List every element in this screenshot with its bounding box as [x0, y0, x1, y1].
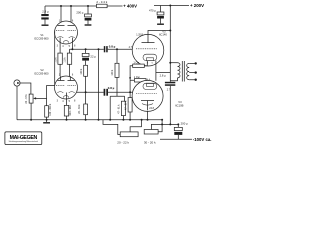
wire V3 cathode lead	[146, 61, 148, 66]
svg-text:2,8 µ: 2,8 µ	[160, 73, 166, 77]
wire pot bottom to bus	[30, 103, 32, 120]
svg-text:620 - 680: 620 - 680	[69, 105, 72, 116]
wire V1 out y49	[70, 48, 133, 50]
wire R5 to bus	[66, 116, 68, 120]
svg-text:Schaltungssammlung Röhrentechn: Schaltungssammlung Röhrentechnik	[9, 140, 38, 143]
capacitor C8 200u	[174, 122, 188, 140]
svg-text:V1: V1	[40, 33, 44, 37]
resistor R9 100k	[110, 49, 124, 120]
tube V1 ECC83	[55, 19, 78, 47]
svg-text:1 Ом: 1 Ом	[134, 76, 140, 79]
svg-text:0.8 µ: 0.8 µ	[108, 86, 115, 90]
resistor R5 620-680	[64, 105, 72, 116]
capacitor C3 470u	[149, 6, 164, 24]
wire HT drop	[169, 6, 171, 82]
resistor R11 47-61k	[117, 101, 125, 120]
potentiometer P1 20-47k	[25, 93, 36, 103]
tube V2 ECC83	[55, 73, 78, 103]
svg-text:2 - 3.4 k: 2 - 3.4 k	[96, 0, 107, 4]
capacitor C6 0.8u	[104, 86, 115, 96]
logo box	[5, 132, 42, 145]
wire R6 to bus	[46, 117, 48, 120]
resistor R1 2-3.4k	[96, 0, 107, 8]
wire V3 anode to rail	[148, 30, 171, 35]
ground G2	[85, 24, 92, 25]
capacitor C1 2.8u	[41, 6, 49, 24]
svg-text:-100V ca.: -100V ca.	[193, 137, 212, 142]
ground G4	[43, 120, 50, 124]
svg-text:100 k: 100 k	[80, 68, 83, 75]
connector J1 input	[14, 80, 20, 86]
svg-text:0.8 µ: 0.8 µ	[109, 45, 116, 49]
svg-text:V2: V2	[40, 68, 44, 72]
wire pot wiper to grid node	[36, 86, 55, 106]
svg-text:470 µ: 470 µ	[149, 9, 156, 13]
wire R7 down	[85, 76, 87, 92]
svg-text:+ 400V: + 400V	[123, 4, 137, 9]
wire R8	[85, 92, 87, 120]
svg-text:20 - 22 k: 20 - 22 k	[117, 141, 129, 145]
resistor R12 47-97k	[125, 92, 133, 120]
svg-text:MAI-GEGEN: MAI-GEGEN	[10, 135, 38, 141]
wire V4 anode to bus	[147, 111, 149, 120]
svg-text:24.8: 24.8	[149, 107, 154, 110]
ground G3	[157, 24, 164, 25]
tube V3 output upper	[129, 33, 164, 66]
resistor R14 1 Ohm	[130, 76, 148, 92]
wire R2-R3 to V2	[60, 49, 69, 76]
wire V2 cathode lead	[66, 93, 68, 106]
svg-text:20 - 33 k: 20 - 33 k	[78, 104, 81, 114]
svg-text:1,5 k: 1,5 k	[64, 57, 67, 63]
ground G1	[42, 25, 49, 26]
wire V2 out y92.2	[77, 91, 133, 93]
resistor R16 30-20k	[144, 120, 162, 145]
svg-text:22 µ: 22 µ	[90, 54, 96, 58]
wire J1 to pot	[20, 83, 31, 94]
svg-text:ECC83-800: ECC83-800	[34, 37, 49, 41]
svg-text:6C10B: 6C10B	[175, 104, 183, 108]
svg-text:200 µ: 200 µ	[76, 10, 83, 14]
svg-text:+ 200V: + 200V	[190, 3, 204, 8]
svg-text:V3: V3	[178, 100, 182, 104]
resistor R3	[64, 53, 72, 64]
svg-text:1.35 B: 1.35 B	[136, 33, 143, 36]
wire top +400V rail	[45, 5, 123, 7]
svg-text:47 - 97 k: 47 - 97 k	[125, 100, 128, 110]
resistor R2	[54, 53, 62, 64]
wire V3 heater pin to V4	[156, 61, 170, 81]
svg-text:30 - 20 k: 30 - 20 k	[144, 141, 156, 145]
svg-text:47 - 61 k: 47 - 61 k	[117, 104, 120, 114]
resistor R15 20-22k	[117, 120, 141, 145]
transformer T1	[170, 61, 197, 82]
tube V4 output lower	[132, 79, 163, 112]
wire V1 cathode leads	[60, 38, 72, 54]
capacitor C4 0.8u	[104, 45, 116, 53]
svg-text:20 - 47 k: 20 - 47 k	[25, 93, 28, 103]
resistor R8 20-33k	[78, 104, 88, 115]
svg-text:ECC83-800: ECC83-800	[34, 72, 49, 76]
svg-text:1 Ом: 1 Ом	[133, 61, 139, 64]
capacitor C5 22u	[82, 49, 96, 65]
capacitor C2 200u	[76, 6, 91, 24]
wire seg A	[103, 120, 120, 135]
wire seg B	[161, 123, 179, 125]
resistor R7	[80, 65, 88, 76]
svg-text:100 k: 100 k	[111, 69, 114, 76]
resistor R6 100-390k	[45, 103, 52, 117]
resistor R13 1 Ohm	[129, 61, 147, 78]
svg-text:100 - 390 k: 100 - 390 k	[49, 103, 52, 116]
wire bus	[17, 119, 163, 121]
svg-text:2,8 µ: 2,8 µ	[42, 10, 49, 14]
wire V1 grid drop	[54, 31, 57, 86]
wire V1 anode pins to rail	[61, 6, 71, 26]
wire +200V rail	[154, 5, 189, 7]
svg-text:200 µ: 200 µ	[181, 122, 188, 126]
capacitor C7 2.8u	[160, 73, 176, 124]
wire feedback vertical	[98, 49, 100, 120]
wire -100V line	[160, 138, 192, 140]
wire J1 ground	[16, 86, 18, 120]
svg-text:6C140: 6C140	[159, 33, 167, 37]
